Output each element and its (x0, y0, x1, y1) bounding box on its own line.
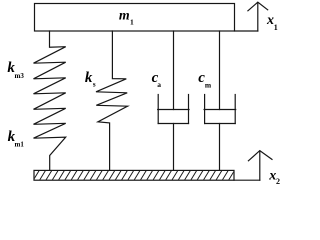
svg-text:m3: m3 (15, 72, 25, 80)
arrow x2 shaft (259, 151, 261, 180)
damper c_a rod top (173, 31, 175, 110)
wire x2 connector (234, 179, 260, 181)
svg-text:k: k (85, 70, 93, 86)
spring k_m3/k_m1 (left) (34, 31, 66, 170)
damper c_m rod top (219, 31, 221, 110)
ground hatching (33, 170, 235, 181)
ground bar (34, 170, 234, 180)
damper c_a rod bottom (173, 124, 175, 171)
arrow x1 head (248, 2, 268, 11)
svg-text:x: x (268, 168, 276, 183)
svg-text:m1: m1 (15, 140, 25, 148)
svg-text:m: m (205, 81, 212, 90)
arrow x2 head (248, 151, 272, 161)
damper c_a cylinder (157, 95, 159, 124)
spring k_s (middle) (96, 31, 128, 170)
svg-text:1: 1 (274, 23, 278, 32)
wire x1 connector (235, 30, 258, 32)
svg-text:1: 1 (130, 17, 134, 26)
damper c_m rod bottom (219, 124, 221, 171)
svg-text:s: s (93, 81, 96, 89)
svg-text:a: a (157, 80, 161, 89)
damper c_m cylinder (204, 95, 206, 124)
svg-text:m: m (119, 9, 130, 24)
mass m1 box (35, 4, 235, 32)
svg-text:2: 2 (276, 177, 280, 186)
arrow x1 shaft (257, 3, 259, 31)
